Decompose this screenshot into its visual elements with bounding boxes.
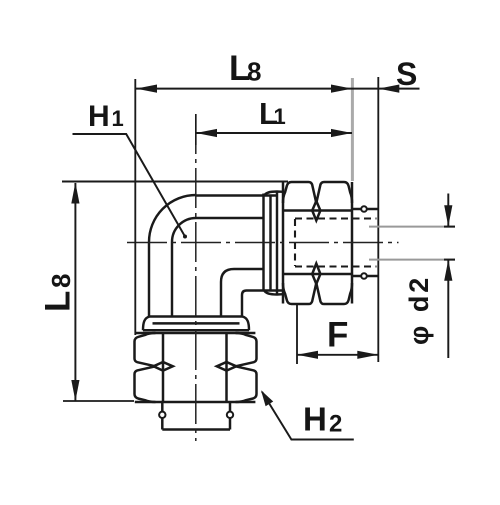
d2 upper gray extension line: [369, 226, 455, 228]
left L8 top arrow: [71, 183, 79, 204]
H2 leader underline and diagonal: [262, 392, 354, 440]
bottom nut top edge: [135, 332, 256, 335]
bottom nut left hex band: [135, 333, 156, 402]
horizontal centerline: [127, 242, 399, 244]
F left extension line: [296, 305, 298, 364]
label phi d2 (rotated): [404, 275, 434, 345]
bottom stub right pin circle: [227, 412, 233, 418]
bottom nut bottom edge: [135, 401, 256, 404]
L8/L1 right gray extension line: [351, 78, 354, 181]
right collar top slant: [264, 192, 283, 197]
d2 upper extension dark tip: [444, 226, 455, 228]
right nut right face: [351, 182, 354, 304]
right collar right line: [276, 192, 278, 295]
right nut lower chamfer diamond: [312, 264, 320, 285]
d2 dimension line upper segment: [447, 194, 449, 227]
vertical centerline: [195, 114, 197, 441]
svg-text:1: 1: [112, 106, 124, 131]
right nut hidden thread line lower: [295, 265, 377, 267]
d2 dimension line lower segment: [447, 260, 449, 358]
elbow hex top edge (with L8 extension line, left): [62, 181, 288, 183]
H1 leader end dot: [183, 235, 187, 239]
elbow body right face: [262, 194, 264, 292]
right collar bottom slant: [264, 290, 283, 295]
bottom collar middle line: [153, 322, 240, 324]
elbow horizontal leg bottom line: [234, 268, 264, 270]
bottom nut left chamfer diamond: [154, 362, 173, 371]
bottom collar right slant: [243, 317, 250, 331]
d2 lower extension dark tip: [444, 259, 455, 261]
L8 right arrow: [331, 85, 352, 93]
right nut upper chamfer diamond: [312, 201, 320, 221]
L8 top left extension line: [134, 79, 136, 335]
right stub top edge: [352, 208, 378, 210]
svg-text:L: L: [39, 291, 78, 312]
bottom stub left edge: [161, 402, 164, 430]
L8 left arrow: [136, 85, 157, 93]
H2 leader arrowhead: [261, 390, 273, 406]
L8 + S dimension line: [136, 88, 420, 90]
svg-text:1: 1: [274, 104, 286, 129]
elbow hex chamfer corner (vertical leg to horizontal leg): [242, 291, 283, 317]
bottom stub right edge: [229, 402, 232, 430]
F dimension line: [297, 354, 378, 356]
d2 top arrow (down): [444, 205, 452, 226]
right stub upper pin circle: [361, 206, 367, 212]
bottom nut right hex band: [236, 333, 257, 402]
right nut top hex band: [283, 182, 352, 203]
elbow horizontal leg inner line: [196, 217, 264, 219]
elbow vertical leg right line: [220, 282, 222, 317]
bottom stub left pin circle: [159, 412, 165, 418]
L1 right arrow: [331, 129, 352, 137]
L8 left bottom extension line: [63, 400, 134, 402]
svg-text:φ d2: φ d2: [404, 275, 434, 345]
d2 bottom arrow (up): [444, 260, 452, 281]
right nut upper division line: [283, 209, 352, 212]
elbow horizontal leg top line: [196, 194, 276, 196]
right nut left face: [282, 182, 285, 304]
svg-text:8: 8: [247, 57, 261, 87]
L1 dimension line: [196, 132, 352, 134]
F right arrow: [357, 351, 378, 359]
right stub lower pin circle: [361, 273, 367, 279]
S left-pointing arrow: [378, 85, 399, 93]
bottom collar bottom line: [143, 329, 249, 331]
left L8 bottom arrow: [71, 380, 79, 401]
bottom nut right chamfer diamond: [217, 362, 237, 371]
elbow inner corner fillet: [221, 269, 234, 282]
svg-text:F: F: [327, 316, 348, 355]
L1 left arrow: [196, 129, 217, 137]
d2 lower gray extension line: [369, 259, 455, 261]
H1 leader underline and diagonal: [73, 134, 186, 237]
svg-text:H: H: [88, 100, 110, 133]
bottom stub bottom edge: [162, 428, 230, 431]
svg-text:2: 2: [329, 411, 342, 438]
elbow vertical leg left line: [148, 242, 150, 317]
bottom nut right division line: [225, 333, 228, 402]
svg-text:8: 8: [46, 274, 76, 288]
right collar middle line: [269, 195, 271, 292]
F left arrow: [297, 351, 318, 359]
svg-text:H: H: [303, 401, 327, 438]
S right extension line: [377, 77, 379, 362]
svg-text:S: S: [396, 56, 417, 92]
right nut hidden thread line upper: [295, 217, 377, 219]
elbow body outer bend arc: [149, 195, 196, 242]
elbow body inner bend arc: [172, 218, 196, 242]
label L8 (left, rotated): [39, 274, 78, 312]
elbow vertical leg inner line: [171, 242, 173, 317]
left L8 dimension line: [74, 183, 76, 401]
bottom nut left division line: [162, 333, 165, 402]
right nut bottom hex band: [283, 283, 352, 304]
right nut hidden thread end line: [294, 219, 296, 266]
bottom collar left slant: [143, 317, 150, 331]
right stub bottom edge: [352, 275, 378, 277]
L1 left extension line (top of centerline): [195, 114, 197, 145]
bottom collar top line: [150, 315, 243, 317]
right nut lower division line: [283, 273, 352, 276]
